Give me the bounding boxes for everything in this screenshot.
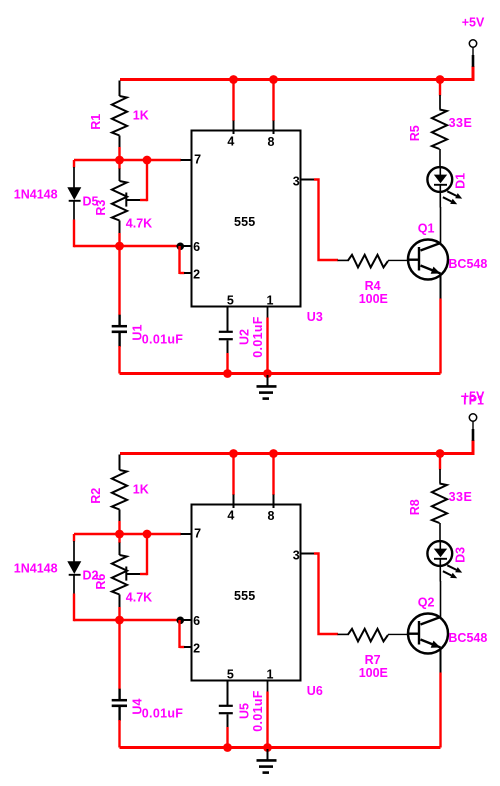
svg-text:4.7K: 4.7K [126, 217, 152, 231]
ground [267, 375, 269, 386]
junction gnd rail / pin1 [263, 369, 272, 378]
svg-text:R7: R7 [365, 653, 381, 667]
svg-text:3: 3 [293, 549, 300, 563]
resistor R2 1K [119, 455, 121, 471]
resistor R1 1K [119, 81, 121, 97]
junction on VCC rail at pin4 column [229, 75, 238, 84]
op-amp/timer IC U3 555 [192, 131, 301, 307]
svg-text:Q1: Q1 [418, 221, 435, 235]
trimmer resistor R3 4.7K [118, 160, 120, 169]
junction pin7 row / wiper of R6 [143, 530, 152, 539]
wire node THR (pin 6 row) [74, 619, 180, 621]
LED D3 [427, 541, 452, 566]
svg-text:U3: U3 [307, 310, 323, 324]
node VCC rail (+5V/TP1) [120, 440, 473, 454]
svg-text:R2: R2 [89, 488, 103, 504]
resistor R5 33E [439, 81, 441, 96]
svg-text:3: 3 [293, 175, 300, 189]
top 555 astable circuit [14, 16, 488, 399]
pin 4 (RESET) [232, 81, 234, 121]
wire pin6 to pin2 [178, 620, 180, 648]
transistor Q1 BC548 [408, 240, 448, 280]
capacitor U1 0.01uF [118, 315, 120, 326]
junction pin6 row / divider bottom [115, 616, 124, 625]
svg-text:8: 8 [268, 135, 275, 149]
resistor R4 100E [338, 259, 350, 261]
wire [226, 727, 228, 748]
wire [118, 607, 120, 621]
power terminal +5V [472, 47, 474, 56]
LED D1 [427, 167, 452, 192]
wire node THR (pin 6 row) [74, 245, 180, 247]
svg-text:R8: R8 [408, 499, 422, 515]
diode D2 1N4148 [73, 534, 75, 542]
wire [73, 220, 75, 248]
junction gnd rail / pin5 cap [223, 369, 232, 378]
svg-text:BC548: BC548 [448, 631, 487, 645]
svg-text:33E: 33E [449, 116, 473, 130]
node VCC rail (+5V) [120, 66, 473, 80]
svg-text:D3: D3 [454, 547, 468, 563]
transistor Q2 BC548 [408, 614, 448, 654]
svg-text:0.01uF: 0.01uF [251, 690, 265, 731]
junction pin6 / pin2 tie (black) [177, 617, 185, 625]
svg-text:4: 4 [227, 135, 234, 149]
resistor R8 33E [439, 455, 441, 470]
wire emitter to ground rail [440, 274, 442, 300]
wire collector [440, 207, 442, 244]
pin 4 (RESET) [232, 455, 234, 495]
svg-text:33E: 33E [449, 490, 473, 504]
trimmer resistor R6 4.7K [118, 534, 120, 543]
junction on VCC rail at pin8 column [269, 449, 278, 458]
wire pin 3 output [301, 553, 315, 555]
svg-text:1: 1 [267, 293, 274, 307]
svg-text:1K: 1K [133, 109, 149, 123]
wire [118, 620, 120, 689]
junction gnd rail / pin5 cap [223, 743, 232, 752]
svg-text:555: 555 [234, 589, 255, 603]
junction on VCC rail at pin8 column [269, 75, 278, 84]
wire [118, 720, 120, 748]
svg-text:R6: R6 [94, 574, 108, 590]
svg-text:0.01uF: 0.01uF [251, 316, 265, 357]
bottom 555 astable circuit [14, 390, 488, 773]
svg-text:5: 5 [227, 667, 234, 681]
ground [267, 749, 269, 760]
wire [118, 147, 120, 161]
wire node DIS (pin 7 row) [74, 533, 181, 535]
wire [118, 521, 120, 535]
wire node DIS (pin 7 row) [74, 159, 181, 161]
wire collector [440, 581, 442, 618]
pin 8 (VCC) [272, 455, 274, 495]
wire pin1 to ground rail [267, 307, 269, 318]
svg-text:2: 2 [193, 268, 200, 282]
junction pin6 / pin2 tie (black) [177, 243, 185, 251]
capacitor U5 0.01uF [227, 681, 229, 705]
svg-text:0.01uF: 0.01uF [142, 707, 183, 721]
pin 8 (VCC) [272, 81, 274, 121]
svg-text:+5V: +5V [462, 16, 485, 30]
svg-text:BC548: BC548 [448, 257, 487, 271]
power terminal +5V/TP1 [472, 421, 474, 430]
junction pin6 row / divider bottom [115, 242, 124, 251]
svg-text:R4: R4 [365, 279, 381, 293]
LED D3 light arrows [447, 565, 456, 570]
svg-text:R1: R1 [89, 114, 103, 130]
wire pin6 to pin2 [178, 246, 180, 274]
junction gnd rail / pin1 [263, 743, 272, 752]
svg-text:555: 555 [234, 215, 255, 229]
svg-text:6: 6 [193, 240, 200, 254]
wire ground rail [120, 746, 441, 749]
svg-text:Q2: Q2 [418, 595, 435, 609]
resistor R7 100E [338, 633, 350, 635]
LED D1 light arrows [447, 191, 456, 196]
svg-text:1N4148: 1N4148 [14, 562, 58, 576]
junction on VCC rail at R8 column [436, 449, 445, 458]
svg-text:1: 1 [267, 667, 274, 681]
wire [118, 233, 120, 247]
wire pin 3 output [301, 179, 315, 181]
wire pin1 to ground rail [267, 681, 269, 692]
svg-text:6: 6 [193, 614, 200, 628]
junction on VCC rail at pin4 column [229, 449, 238, 458]
svg-text:5: 5 [227, 293, 234, 307]
wiper arm of R6 [125, 567, 127, 581]
wire [226, 353, 228, 374]
diode D5 1N4148 [73, 160, 75, 168]
svg-text:U5: U5 [237, 703, 251, 719]
junction pin7 row / wiper of R3 [143, 156, 152, 165]
junction pin7 row / R divider [115, 530, 124, 539]
wire [73, 594, 75, 622]
svg-text:1N4148: 1N4148 [14, 188, 58, 202]
svg-text:8: 8 [268, 509, 275, 523]
wire emitter to ground rail [440, 648, 442, 674]
svg-text:U6: U6 [307, 684, 323, 698]
svg-text:TP1: TP1 [461, 394, 484, 408]
junction pin7 row / R divider [115, 156, 124, 165]
svg-text:4: 4 [227, 509, 234, 523]
wire [118, 346, 120, 374]
svg-text:7: 7 [194, 153, 201, 167]
svg-text:U2: U2 [237, 329, 251, 345]
capacitor U4 0.01uF [118, 689, 120, 700]
junction on VCC rail at R5 column [436, 75, 445, 84]
svg-text:R5: R5 [408, 125, 422, 141]
svg-text:100E: 100E [359, 292, 388, 306]
wire [118, 246, 120, 315]
svg-text:7: 7 [194, 527, 201, 541]
svg-text:100E: 100E [359, 666, 388, 680]
svg-text:0.01uF: 0.01uF [142, 333, 183, 347]
wire ground rail [120, 372, 441, 375]
svg-text:1K: 1K [133, 483, 149, 497]
wiper arm of R3 [125, 193, 127, 207]
capacitor U2 0.01uF [227, 307, 229, 331]
svg-text:R3: R3 [94, 200, 108, 216]
svg-text:2: 2 [193, 642, 200, 656]
svg-text:4.7K: 4.7K [126, 591, 152, 605]
op-amp/timer IC U6 555 [192, 505, 301, 681]
svg-text:D1: D1 [454, 173, 468, 189]
